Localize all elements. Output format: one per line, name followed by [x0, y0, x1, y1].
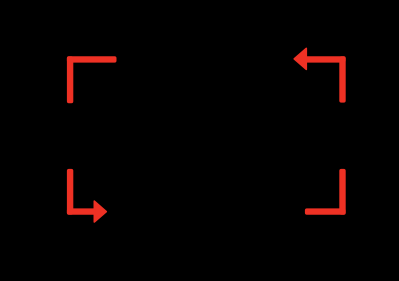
bottom-left elbow arrow (arrowhead pointing right) [67, 169, 106, 222]
top-right elbow arrow (arrowhead pointing left) [294, 48, 346, 102]
bottom-right corner bracket (elbow connector) [305, 169, 346, 215]
top-left corner bracket (elbow connector) [67, 56, 117, 103]
arrowhead left [294, 48, 306, 69]
arrowhead right [94, 201, 106, 222]
